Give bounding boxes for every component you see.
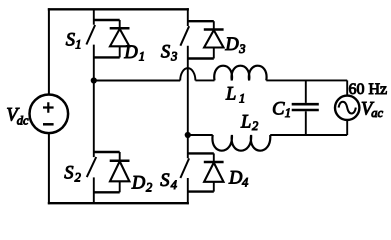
wire left leg middle <box>93 45 95 158</box>
switch S3 <box>188 20 214 22</box>
wire L1 to output <box>266 79 347 81</box>
wire right leg top <box>187 8 189 26</box>
svg-text:1: 1 <box>139 50 145 64</box>
wire crossover hop <box>180 68 195 80</box>
svg-text:S: S <box>66 31 75 51</box>
inductor L1 <box>214 66 266 81</box>
svg-text:4: 4 <box>242 175 248 189</box>
svg-text:4: 4 <box>171 178 177 192</box>
svg-text:C: C <box>272 100 285 120</box>
diode D2 <box>119 152 121 161</box>
wire left branch lower <box>48 134 50 205</box>
svg-text:1: 1 <box>75 38 81 52</box>
wire bottom rail <box>48 202 189 204</box>
svg-text:D: D <box>123 43 138 63</box>
source Vac <box>335 96 359 120</box>
svg-text:3: 3 <box>238 42 245 56</box>
capacitor C1 <box>305 80 307 103</box>
diode D3 <box>213 21 215 29</box>
svg-text:D: D <box>224 35 239 55</box>
wire right leg bottom <box>187 178 189 204</box>
switch S2 <box>94 151 120 153</box>
wire left leg bottom <box>93 177 95 204</box>
wire left branch upper <box>48 8 50 94</box>
svg-text:2: 2 <box>146 180 152 194</box>
svg-text:D: D <box>131 174 146 194</box>
wire left leg top <box>93 9 95 25</box>
diode D1 <box>119 20 121 28</box>
diode D4 <box>213 153 215 162</box>
svg-text:1: 1 <box>239 92 245 106</box>
wire right leg middle <box>187 46 189 159</box>
switch S1 <box>94 19 120 21</box>
wire right branch lower <box>346 120 348 135</box>
source Vdc <box>30 95 69 134</box>
wire node B to L2 <box>188 134 213 136</box>
svg-text:L: L <box>225 85 236 105</box>
switch S4 <box>188 152 214 154</box>
svg-text:D: D <box>228 169 243 189</box>
svg-text:S: S <box>161 43 170 63</box>
wire hop to L1 <box>195 79 214 81</box>
inductor L2 <box>212 135 270 151</box>
svg-text:60 Hz: 60 Hz <box>349 81 388 98</box>
svg-text:3: 3 <box>170 50 177 64</box>
svg-text:S: S <box>64 163 73 183</box>
svg-text:S: S <box>160 171 169 191</box>
svg-text:2: 2 <box>75 170 81 184</box>
wire right branch upper <box>346 80 348 95</box>
node B junction dot <box>185 132 191 138</box>
svg-text:2: 2 <box>252 119 258 133</box>
wire output A <box>94 80 180 82</box>
wire L2 to output <box>270 134 347 136</box>
svg-text:dc: dc <box>17 113 29 127</box>
svg-text:L: L <box>240 113 251 133</box>
wire top rail <box>48 8 189 10</box>
svg-text:ac: ac <box>371 106 383 120</box>
node A junction dot <box>91 77 97 83</box>
svg-text:1: 1 <box>285 106 291 120</box>
